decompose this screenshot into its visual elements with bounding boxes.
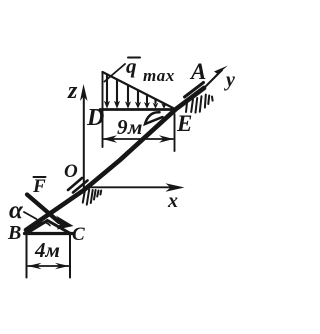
svg-text:B: B <box>7 222 21 244</box>
ground hatching at O <box>83 189 101 205</box>
beam BA <box>26 88 204 230</box>
force F line <box>27 195 59 223</box>
svg-text:F: F <box>32 176 46 197</box>
dimension 4m extension left <box>26 235 28 278</box>
distributed load baseline DE <box>100 108 176 111</box>
svg-text:4м: 4м <box>34 238 60 262</box>
load left edge at D <box>102 72 104 147</box>
svg-text:A: A <box>189 59 206 84</box>
axis x <box>88 183 185 191</box>
alpha leader line <box>24 212 37 219</box>
axis z <box>80 84 88 190</box>
wall line at A <box>185 83 204 98</box>
svg-text:O: O <box>64 161 78 182</box>
label F with bar <box>32 176 46 197</box>
dimension 4m arrow line <box>28 263 70 270</box>
svg-text:C: C <box>72 224 85 245</box>
svg-text:max: max <box>143 66 175 85</box>
double tick on beam at O <box>68 178 88 193</box>
small angle arc at crossing <box>38 222 50 225</box>
angle mark at E <box>145 112 163 124</box>
dimension 9m extension right <box>174 114 176 151</box>
dimension 9m arrow line <box>103 135 174 142</box>
wall hatching at A <box>186 95 213 113</box>
dimension 4m extension right <box>69 235 71 278</box>
load arrows <box>107 75 164 105</box>
svg-text:D: D <box>86 105 104 131</box>
svg-text:E: E <box>176 111 192 136</box>
force F arrowhead <box>56 216 74 230</box>
svg-text:9м: 9м <box>117 115 143 139</box>
label q max <box>126 54 175 85</box>
svg-text:α: α <box>9 197 24 224</box>
axis y arrow <box>202 66 228 91</box>
svg-text:z: z <box>67 78 78 104</box>
svg-text:x: x <box>167 190 178 212</box>
leader line of q max <box>105 64 126 82</box>
support triangle BC <box>25 221 73 234</box>
svg-text:y: y <box>224 69 235 91</box>
load hypotenuse <box>103 72 177 110</box>
overbar of q <box>128 57 140 59</box>
